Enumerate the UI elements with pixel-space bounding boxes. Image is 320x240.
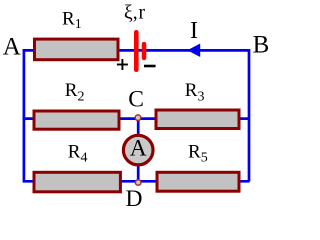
node A label (3, 34, 21, 61)
label R2 (65, 80, 85, 104)
svg-text:A: A (130, 136, 147, 162)
node D label (126, 186, 143, 212)
wire top row (A to B through R1 and battery) (23, 49, 250, 52)
EMF label xi, r (124, 2, 146, 23)
svg-text:R1: R1 (62, 9, 82, 33)
wire middle column (C - ammeter - D) (137, 118, 140, 183)
svg-text:R3: R3 (185, 80, 205, 104)
wire bottom row (R4 - D - R5) (23, 180, 250, 183)
label R1 (62, 9, 82, 33)
svg-text:r: r (139, 2, 146, 23)
svg-text:B: B (253, 32, 270, 59)
resistor R1 (35, 39, 119, 60)
svg-text:R5: R5 (188, 141, 208, 165)
battery minus sign (144, 65, 156, 68)
svg-text:A: A (3, 34, 21, 61)
node B label (253, 32, 270, 59)
wire right vertical (node B branch) (248, 49, 251, 181)
label R3 (185, 80, 205, 104)
wire middle row (R2 - C - R3) (23, 117, 250, 120)
resistor R2 (34, 111, 119, 129)
current label I (190, 18, 198, 44)
battery plus sign (117, 59, 128, 70)
svg-text:R4: R4 (68, 141, 88, 165)
svg-text:I: I (190, 18, 198, 44)
svg-text:R2: R2 (65, 80, 85, 104)
current arrow on top wire (187, 44, 200, 58)
label R4 (68, 141, 88, 165)
resistor R4 (34, 172, 120, 192)
wire left vertical (node A branch) (23, 49, 26, 181)
svg-text:ξ,: ξ, (124, 2, 138, 23)
svg-text:D: D (126, 186, 143, 212)
battery negative plate (short) (142, 42, 147, 60)
label R5 (188, 141, 208, 165)
resistor R5 (157, 172, 239, 191)
ammeter A (circle) (123, 135, 153, 165)
resistor R3 (156, 110, 239, 129)
node D (junction dot) (135, 180, 141, 186)
node C label (128, 87, 144, 113)
battery positive plate (long) (134, 30, 139, 72)
svg-text:C: C (128, 87, 144, 113)
node C (junction dot) (135, 115, 141, 121)
